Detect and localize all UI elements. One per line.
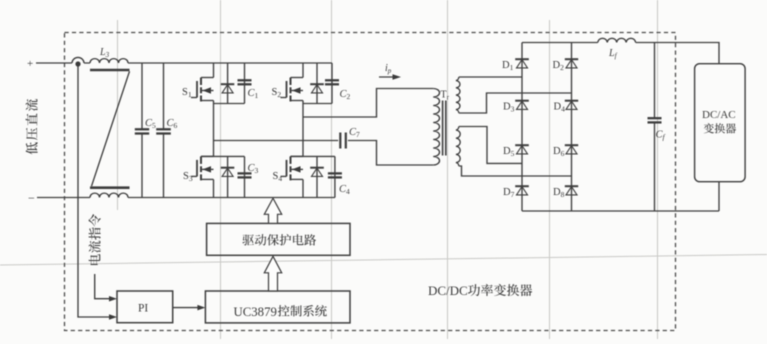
diode D8 <box>565 185 578 187</box>
svg-text:Lf: Lf <box>608 48 618 60</box>
coupled-inductor diagonal link <box>92 71 130 186</box>
dashed enclosure DC/DC converter boundary <box>65 33 676 331</box>
wire DC/AC box bottom to bus <box>718 182 720 211</box>
wire PI output to UC3879 <box>173 307 200 309</box>
svg-text:L3: L3 <box>99 47 110 59</box>
wire midpoint A to C7 <box>214 140 339 142</box>
transformer secondary winding 2 (bottom) <box>456 127 460 166</box>
wire rectifier left column <box>521 43 523 212</box>
diode D6 <box>565 144 578 146</box>
label 电流指令 (current command) <box>89 214 101 265</box>
wire bridge left midpoint (S1-S3) <box>213 104 215 157</box>
capacitor C5 <box>135 128 149 130</box>
diode antiparallel S4 <box>316 156 318 197</box>
diode D5 <box>515 144 529 146</box>
capacitor Cf branch <box>654 43 656 212</box>
wire output top bus <box>636 43 719 64</box>
wire sec1 top lead to D1/D3 junction <box>459 76 522 78</box>
svg-text:D8: D8 <box>553 187 565 199</box>
wire S4 drain bus <box>291 155 335 157</box>
hollow arrow drive circuit to bridge <box>264 198 281 223</box>
svg-text:C4: C4 <box>339 184 350 196</box>
svg-text:C2: C2 <box>340 89 351 101</box>
hollow arrow UC3879 to drive circuit <box>264 256 281 291</box>
svg-text:D7: D7 <box>503 187 515 199</box>
transistor S4 (MOSFET, bottom-right of bridge) <box>291 155 304 157</box>
wire midpoint B to transformer primary top <box>303 89 433 118</box>
svg-text:C3: C3 <box>248 163 259 175</box>
capacitor C2 <box>325 79 339 81</box>
svg-text:S4: S4 <box>273 171 283 183</box>
inductor L3 (input filter choke, coupled) <box>72 57 84 63</box>
arrow ip <box>379 76 396 78</box>
svg-text:S2: S2 <box>272 87 282 99</box>
svg-text:ip: ip <box>385 63 392 75</box>
svg-text:D1: D1 <box>502 60 514 72</box>
capacitor C6 <box>156 128 171 130</box>
diode D2 <box>565 58 578 60</box>
transistor S2 (MOSFET, top-right of bridge) <box>302 63 304 78</box>
svg-text:D2: D2 <box>553 60 565 72</box>
wire S2 source bus <box>303 103 332 105</box>
transistor S3 (MOSFET, bottom-left of bridge) <box>201 155 214 157</box>
svg-text:C6: C6 <box>167 118 178 130</box>
wire S3 drain bus <box>201 155 245 157</box>
svg-text:C7: C7 <box>349 127 360 139</box>
capacitor Cf <box>648 117 662 119</box>
diode D7 <box>515 185 529 187</box>
capacitor C1 branch <box>244 63 246 104</box>
svg-text:C5: C5 <box>145 118 156 130</box>
label 变换器 <box>704 123 714 133</box>
diode antiparallel S2 <box>316 63 318 104</box>
svg-text:S3: S3 <box>183 171 193 183</box>
inductor Lf <box>598 38 636 42</box>
svg-text:Tr: Tr <box>441 90 450 102</box>
wire bridge right midpoint (S2-S4) <box>302 104 304 157</box>
label 驱动保护电路 <box>242 234 254 245</box>
svg-text:Cf: Cf <box>656 130 666 142</box>
inductor bottom winding (on - rail) <box>90 193 128 197</box>
wire sec2 top lead to D5/D7 junction <box>459 127 522 164</box>
svg-text:DC/AC: DC/AC <box>702 109 736 121</box>
coupled-inductor core bar top <box>90 69 130 72</box>
wire sec1 bottom lead to D2/D4 junction <box>459 93 572 113</box>
diode antiparallel S1 <box>227 63 229 104</box>
wire current feedback from + rail junction to PI <box>78 64 112 317</box>
svg-text:S1: S1 <box>182 87 192 99</box>
block DC/AC converter box <box>695 64 746 182</box>
wire bottom rail <box>37 197 335 199</box>
coupled-inductor core bar bottom <box>90 186 130 189</box>
svg-text:D4: D4 <box>554 102 566 114</box>
svg-text:UC3879: UC3879 <box>234 305 277 319</box>
wire rectifier bottom bus <box>522 210 719 212</box>
block PI regulator box <box>117 291 173 323</box>
capacitor C4 branch <box>334 156 336 197</box>
svg-text:PI: PI <box>138 303 148 315</box>
block UC3879 control system box <box>205 291 350 323</box>
wire S1 source bus <box>214 103 245 105</box>
capacitor C2 branch <box>331 63 333 104</box>
svg-text:D5: D5 <box>503 146 515 158</box>
wire top rail <box>36 62 332 64</box>
wire rectifier top bus <box>522 42 598 44</box>
diode antiparallel S3 <box>227 156 229 197</box>
wire rectifier right column <box>571 43 573 212</box>
svg-text:D3: D3 <box>503 102 515 114</box>
capacitor C6 branch wire <box>163 63 165 198</box>
svg-text:+: + <box>27 58 33 70</box>
transistor S1 (MOSFET, top-left of bridge) <box>213 63 215 78</box>
wire C7 to transformer primary bottom <box>348 141 433 166</box>
transformer T primary winding <box>433 89 439 166</box>
svg-text:DC/DC: DC/DC <box>428 283 468 298</box>
capacitor C5 branch wire <box>141 63 143 198</box>
capacitor C1 <box>238 79 252 81</box>
block drive protection circuit box <box>207 223 350 255</box>
capacitor C3 branch <box>244 156 246 197</box>
diode D4 <box>565 100 578 102</box>
capacitor C7 (series blocking) <box>340 133 346 149</box>
label 低压直流 (low-voltage DC input) <box>26 99 38 154</box>
diode D3 <box>515 100 529 102</box>
svg-text:−: − <box>28 191 35 205</box>
diode D1 <box>515 58 529 60</box>
svg-text:C1: C1 <box>248 88 259 100</box>
wire sec2 bottom lead to D6/D8 junction <box>459 166 572 176</box>
transformer core <box>443 101 446 156</box>
node junction dot on + rail <box>75 61 80 66</box>
capacitor C3 <box>238 172 252 174</box>
transformer secondary winding 1 (top) <box>456 77 460 113</box>
capacitor C4 <box>328 172 342 174</box>
svg-text:D6: D6 <box>553 146 565 158</box>
wire current command into PI <box>95 274 112 299</box>
